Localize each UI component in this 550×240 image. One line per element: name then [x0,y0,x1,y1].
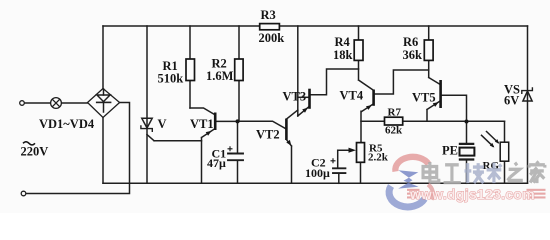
svg-text:R4: R4 [335,35,351,49]
svg-text:VD1~VD4: VD1~VD4 [39,117,95,131]
svg-text:R3: R3 [261,8,276,22]
svg-text:PE: PE [442,144,458,158]
svg-text:6V: 6V [504,94,519,108]
svg-text:510k: 510k [158,72,184,86]
svg-text:2.2k: 2.2k [368,152,389,164]
svg-text:V: V [158,117,167,131]
svg-text:VT4: VT4 [340,89,364,103]
svg-text:200k: 200k [259,31,285,45]
svg-text:47μ: 47μ [207,156,226,170]
svg-text:R6: R6 [403,35,418,49]
svg-text:www.dgjs123.com: www.dgjs123.com [409,187,535,202]
svg-text:VT3: VT3 [283,90,307,104]
svg-text:100μ: 100μ [305,166,330,180]
svg-text:VT2: VT2 [256,128,280,142]
svg-text:220V: 220V [21,145,49,159]
svg-text:R7: R7 [388,106,402,118]
svg-text:VT5: VT5 [412,91,436,105]
svg-text:VT1: VT1 [190,117,214,131]
svg-text:36k: 36k [403,48,423,62]
svg-text:1.6M: 1.6M [206,69,234,83]
svg-text:62k: 62k [385,125,403,137]
svg-text:18k: 18k [333,48,353,62]
